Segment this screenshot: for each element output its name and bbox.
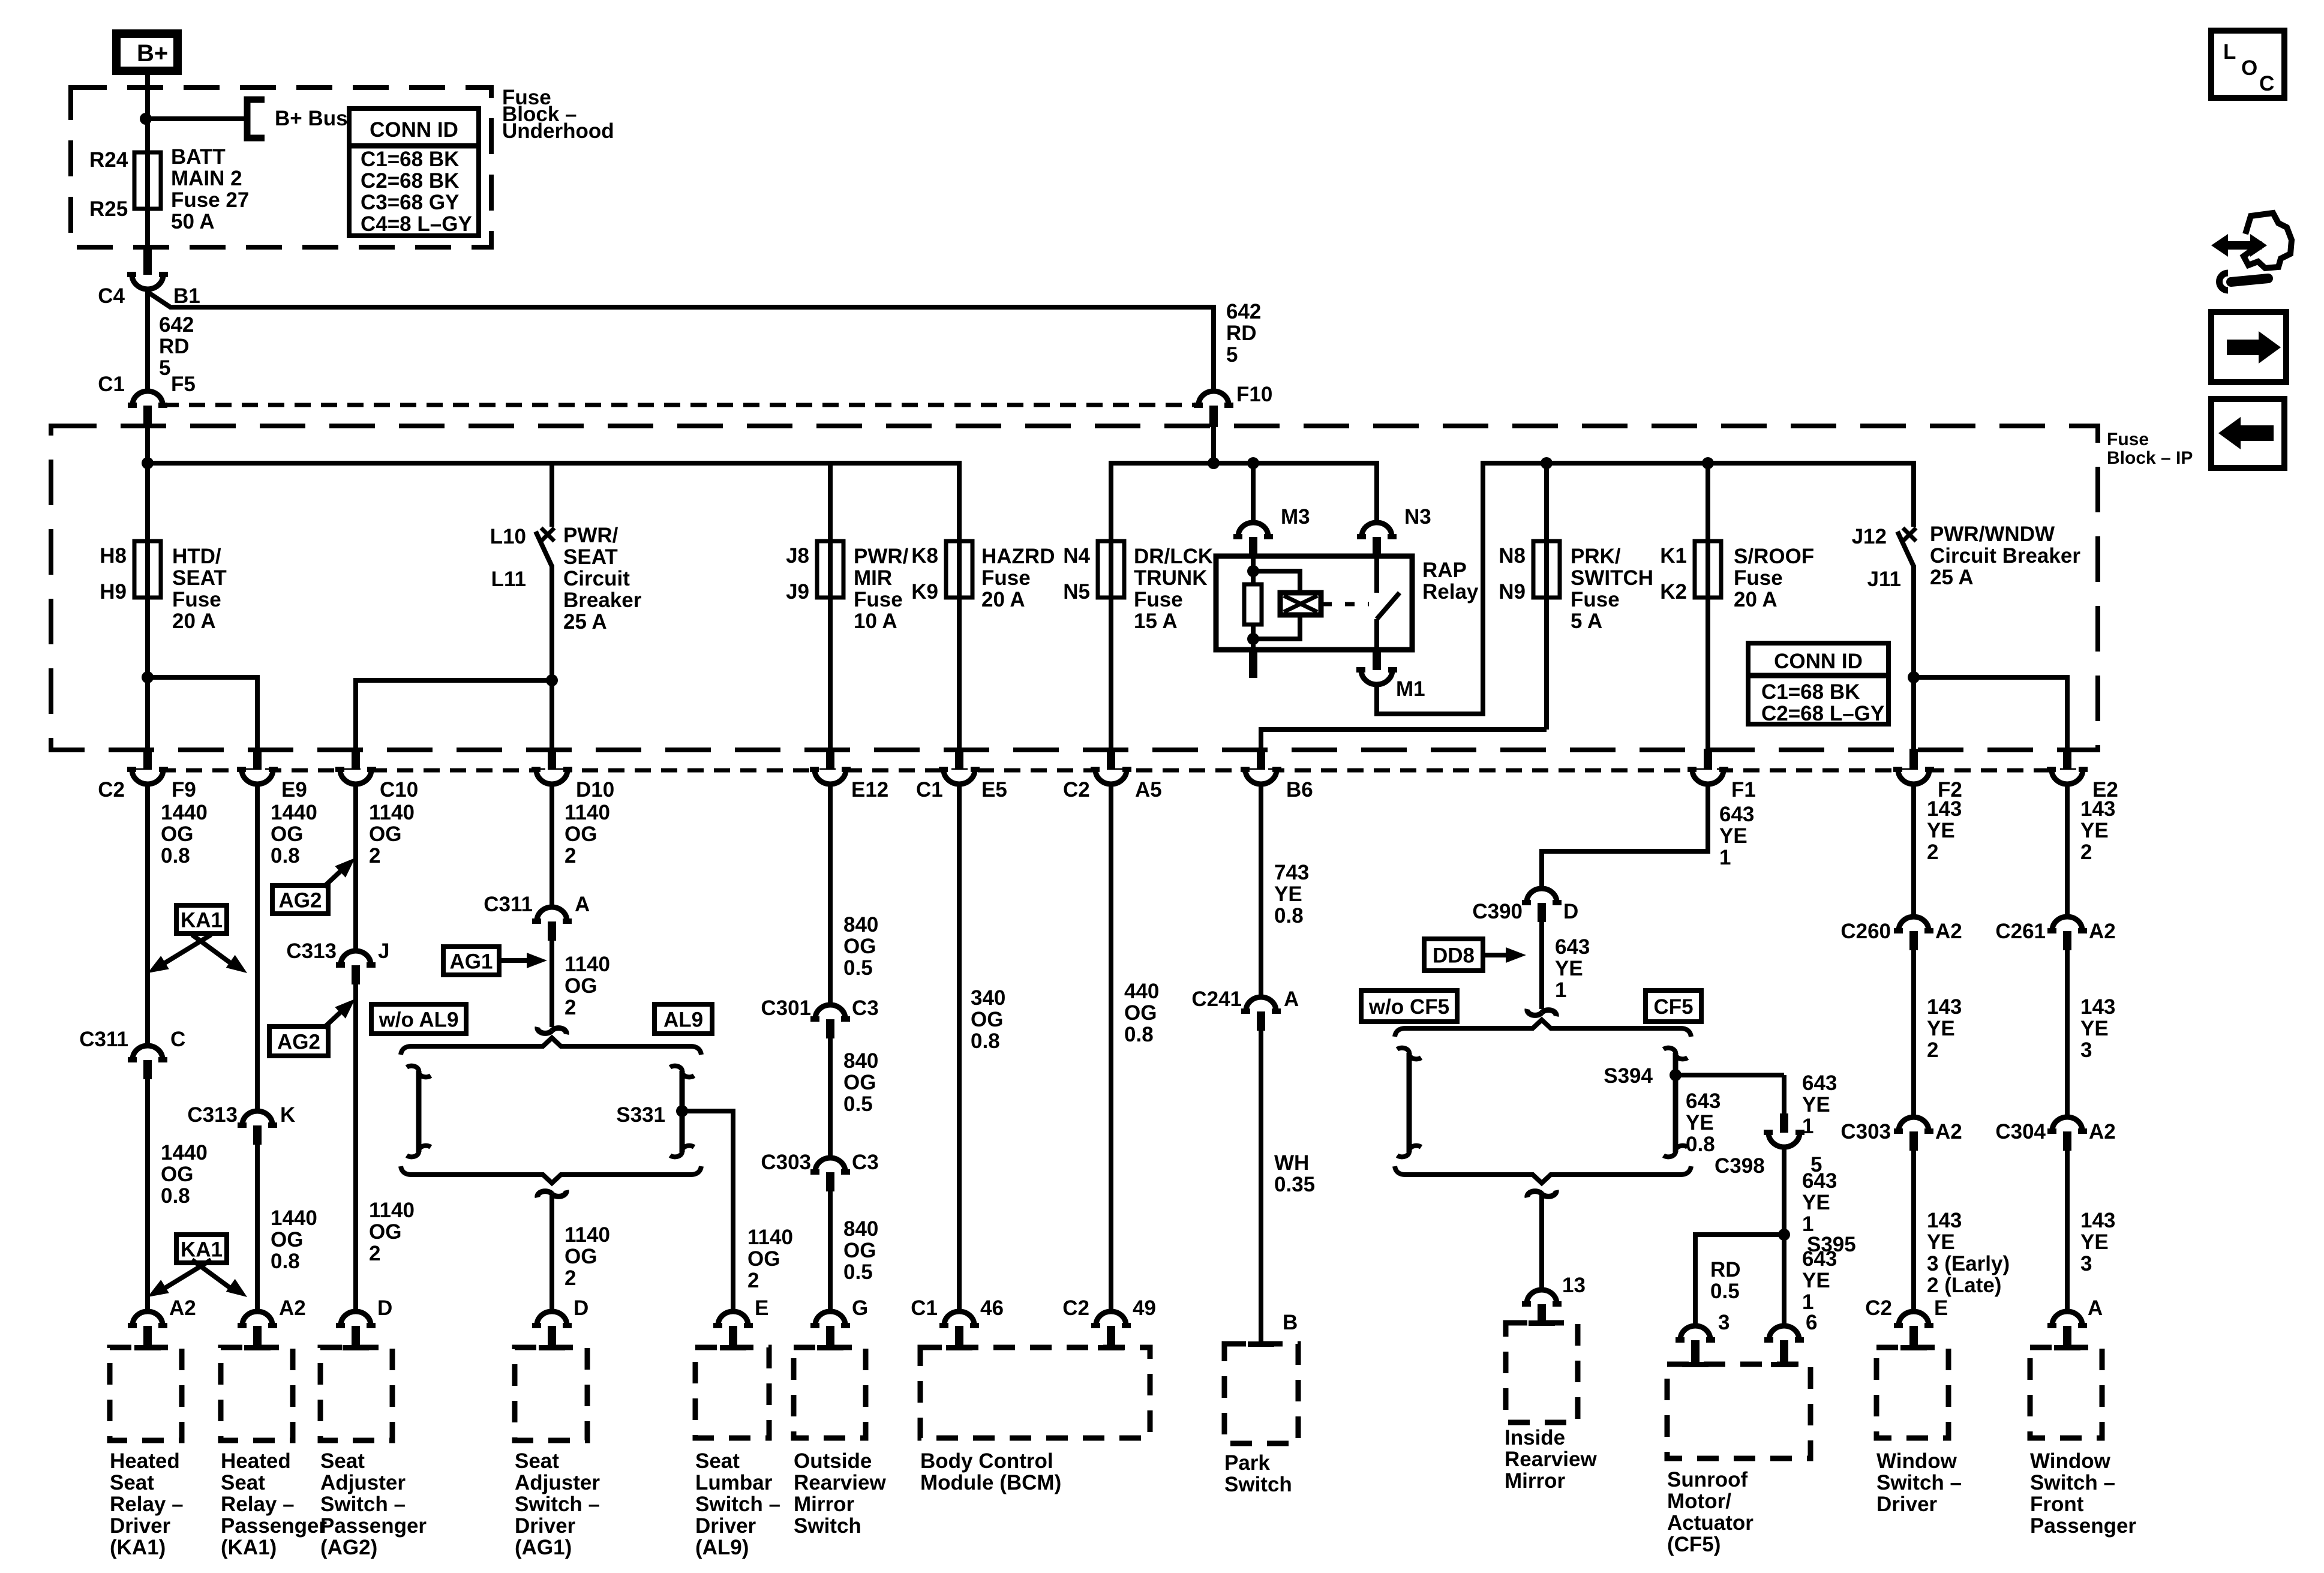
- svg-text:Underhood: Underhood: [502, 119, 614, 143]
- svg-text:0.8: 0.8: [161, 844, 190, 867]
- svg-text:C303: C303: [1840, 1120, 1891, 1143]
- svg-text:Sunroof: Sunroof: [1667, 1468, 1747, 1491]
- svg-text:YE: YE: [1274, 882, 1302, 906]
- svg-text:OG: OG: [271, 822, 303, 846]
- svg-text:Driver: Driver: [110, 1514, 171, 1538]
- svg-text:2: 2: [565, 996, 576, 1019]
- svg-text:15 A: 15 A: [1134, 610, 1178, 633]
- svg-text:CONN ID: CONN ID: [370, 118, 458, 142]
- svg-text:C311: C311: [79, 1028, 128, 1051]
- svg-text:0.8: 0.8: [1124, 1023, 1154, 1046]
- svg-text:RD: RD: [1710, 1258, 1741, 1281]
- svg-text:AG1: AG1: [450, 950, 493, 974]
- svg-text:20 A: 20 A: [981, 588, 1025, 611]
- svg-text:2: 2: [2080, 840, 2092, 864]
- svg-text:E: E: [1934, 1296, 1948, 1320]
- svg-text:SEAT: SEAT: [563, 545, 618, 569]
- svg-text:50 A: 50 A: [171, 210, 215, 233]
- svg-text:Passenger: Passenger: [2030, 1514, 2136, 1538]
- svg-text:6: 6: [1806, 1311, 1817, 1334]
- svg-text:SEAT: SEAT: [172, 566, 227, 590]
- svg-text:O: O: [2241, 56, 2257, 80]
- svg-text:Heated: Heated: [110, 1449, 180, 1473]
- svg-text:Breaker: Breaker: [563, 589, 642, 612]
- svg-text:C241: C241: [1191, 987, 1242, 1011]
- svg-text:1140: 1140: [565, 953, 610, 976]
- svg-text:N4: N4: [1063, 544, 1090, 568]
- svg-text:YE: YE: [1802, 1269, 1830, 1292]
- svg-text:BATT: BATT: [171, 145, 226, 169]
- svg-text:13: 13: [1562, 1274, 1586, 1297]
- svg-text:5: 5: [1226, 343, 1238, 367]
- svg-text:N8: N8: [1499, 544, 1526, 568]
- svg-text:D: D: [574, 1296, 588, 1320]
- svg-text:Driver: Driver: [695, 1514, 756, 1538]
- svg-text:D: D: [377, 1296, 392, 1320]
- svg-text:C1: C1: [916, 778, 943, 801]
- svg-text:143: 143: [1927, 1209, 1962, 1232]
- svg-text:(CF5): (CF5): [1667, 1533, 1721, 1556]
- svg-text:25 A: 25 A: [1930, 566, 1974, 589]
- svg-text:0.8: 0.8: [971, 1029, 1000, 1053]
- svg-text:Outside: Outside: [794, 1449, 872, 1473]
- svg-text:643: 643: [1802, 1071, 1837, 1095]
- svg-text:C311: C311: [484, 893, 533, 916]
- svg-text:OG: OG: [971, 1008, 1003, 1031]
- svg-text:Circuit: Circuit: [563, 567, 630, 590]
- svg-text:R25: R25: [89, 197, 128, 221]
- svg-text:C2: C2: [1865, 1296, 1892, 1320]
- svg-text:E: E: [755, 1296, 768, 1320]
- svg-text:AG2: AG2: [277, 1031, 320, 1054]
- svg-text:Seat: Seat: [695, 1449, 740, 1473]
- svg-text:F9: F9: [172, 778, 196, 801]
- svg-text:643: 643: [1719, 803, 1754, 826]
- svg-text:25 A: 25 A: [563, 610, 607, 634]
- svg-text:Relay –: Relay –: [110, 1493, 184, 1516]
- svg-text:SWITCH: SWITCH: [1571, 566, 1653, 590]
- svg-text:643: 643: [1555, 935, 1590, 959]
- svg-text:DR/LCK: DR/LCK: [1134, 545, 1213, 568]
- svg-text:Seat: Seat: [110, 1471, 154, 1494]
- svg-text:0.8: 0.8: [1274, 904, 1304, 927]
- svg-text:H8: H8: [100, 544, 127, 568]
- svg-text:Mirror: Mirror: [794, 1493, 855, 1516]
- svg-text:F1: F1: [1731, 778, 1756, 801]
- svg-text:C2: C2: [1063, 778, 1090, 801]
- svg-text:C261: C261: [1995, 920, 2046, 943]
- svg-text:2: 2: [1927, 840, 1938, 864]
- svg-text:YE: YE: [2080, 1230, 2109, 1254]
- svg-text:OG: OG: [161, 822, 193, 846]
- svg-text:E9: E9: [281, 778, 307, 801]
- svg-text:10 A: 10 A: [854, 610, 897, 633]
- svg-text:Switch –: Switch –: [320, 1493, 406, 1516]
- svg-text:Window: Window: [1876, 1449, 1957, 1473]
- svg-text:OG: OG: [565, 822, 597, 846]
- svg-text:Fuse: Fuse: [981, 566, 1031, 590]
- svg-text:C390: C390: [1472, 900, 1523, 923]
- svg-text:Rearview: Rearview: [1505, 1448, 1597, 1471]
- svg-text:5 A: 5 A: [1571, 610, 1602, 633]
- svg-text:0.35: 0.35: [1274, 1173, 1315, 1196]
- svg-text:440: 440: [1124, 980, 1159, 1003]
- svg-text:D10: D10: [576, 778, 614, 801]
- svg-text:743: 743: [1274, 861, 1309, 884]
- svg-text:3: 3: [2080, 1252, 2092, 1275]
- svg-text:Switch: Switch: [794, 1514, 861, 1538]
- svg-text:C4=8 L–GY: C4=8 L–GY: [361, 212, 472, 236]
- svg-text:OG: OG: [565, 974, 597, 998]
- svg-text:B6: B6: [1286, 778, 1313, 801]
- svg-text:YE: YE: [1555, 957, 1583, 980]
- svg-text:PWR/: PWR/: [563, 524, 618, 547]
- svg-text:143: 143: [1927, 995, 1962, 1019]
- svg-text:49: 49: [1133, 1296, 1156, 1320]
- svg-text:Seat: Seat: [320, 1449, 365, 1473]
- svg-text:0.8: 0.8: [271, 844, 300, 867]
- svg-text:1140: 1140: [565, 801, 610, 824]
- svg-text:E12: E12: [851, 778, 888, 801]
- svg-text:A: A: [1284, 987, 1299, 1011]
- svg-text:Park: Park: [1224, 1451, 1270, 1475]
- svg-text:A2: A2: [169, 1296, 196, 1320]
- svg-text:L11: L11: [491, 568, 526, 591]
- svg-text:OG: OG: [271, 1228, 303, 1251]
- svg-text:OG: OG: [369, 1220, 401, 1244]
- svg-text:F10: F10: [1236, 383, 1272, 406]
- svg-text:Switch –: Switch –: [515, 1493, 600, 1516]
- svg-text:YE: YE: [1927, 1230, 1955, 1254]
- svg-text:Seat: Seat: [221, 1471, 265, 1494]
- svg-text:H9: H9: [100, 580, 127, 604]
- svg-text:J8: J8: [786, 544, 809, 568]
- svg-text:Switch: Switch: [1224, 1473, 1292, 1496]
- svg-text:N3: N3: [1404, 505, 1431, 529]
- svg-text:A: A: [575, 893, 590, 916]
- svg-text:Passenger: Passenger: [221, 1514, 327, 1538]
- svg-text:Block – IP: Block – IP: [2107, 448, 2193, 468]
- svg-text:RD: RD: [1226, 322, 1257, 345]
- svg-text:L10: L10: [490, 525, 526, 548]
- svg-text:Body Control: Body Control: [920, 1449, 1053, 1473]
- svg-text:K8: K8: [911, 544, 938, 568]
- svg-text:C3=68 GY: C3=68 GY: [361, 191, 459, 214]
- svg-text:HTD/: HTD/: [172, 545, 221, 568]
- svg-text:Switch –: Switch –: [695, 1493, 780, 1516]
- svg-text:Inside: Inside: [1505, 1426, 1565, 1449]
- svg-text:K2: K2: [1660, 580, 1687, 604]
- svg-text:B+: B+: [137, 40, 168, 67]
- svg-text:1440: 1440: [161, 1141, 208, 1164]
- svg-text:Fuse: Fuse: [1734, 566, 1783, 590]
- svg-text:Adjuster: Adjuster: [515, 1471, 600, 1494]
- svg-text:1140: 1140: [369, 801, 415, 824]
- svg-text:C3: C3: [852, 1151, 879, 1174]
- svg-text:2: 2: [369, 844, 380, 867]
- svg-text:YE: YE: [1686, 1111, 1714, 1134]
- svg-text:C3: C3: [852, 996, 879, 1020]
- svg-text:C1=68 BK: C1=68 BK: [1761, 680, 1860, 704]
- svg-text:w/o AL9: w/o AL9: [379, 1008, 459, 1032]
- svg-text:w/o CF5: w/o CF5: [1368, 995, 1449, 1019]
- svg-text:0.8: 0.8: [161, 1184, 190, 1208]
- svg-text:AG2: AG2: [279, 889, 322, 912]
- svg-text:C1: C1: [911, 1296, 938, 1320]
- svg-text:N9: N9: [1499, 580, 1526, 604]
- svg-text:OG: OG: [747, 1247, 780, 1271]
- svg-text:2: 2: [565, 844, 576, 867]
- svg-text:YE: YE: [2080, 1017, 2109, 1040]
- svg-text:840: 840: [843, 1217, 878, 1241]
- svg-text:R24: R24: [89, 148, 128, 172]
- svg-text:MIR: MIR: [854, 566, 892, 590]
- svg-text:OG: OG: [843, 1071, 876, 1094]
- svg-text:143: 143: [2080, 1209, 2115, 1232]
- svg-text:YE: YE: [1719, 824, 1747, 848]
- svg-text:C313: C313: [286, 939, 337, 963]
- svg-text:Switch –: Switch –: [2030, 1471, 2115, 1494]
- svg-text:A: A: [2088, 1296, 2103, 1320]
- svg-text:A2: A2: [1935, 1120, 1962, 1143]
- svg-text:YE: YE: [2080, 819, 2109, 842]
- svg-text:Front: Front: [2030, 1493, 2084, 1516]
- svg-text:0.5: 0.5: [843, 1092, 873, 1116]
- svg-text:J: J: [378, 939, 389, 963]
- svg-text:0.8: 0.8: [271, 1250, 300, 1273]
- svg-text:B+ Bus: B+ Bus: [275, 107, 348, 130]
- svg-text:C: C: [170, 1028, 185, 1051]
- svg-text:RD: RD: [159, 335, 190, 358]
- svg-text:A2: A2: [1935, 920, 1962, 943]
- svg-text:M1: M1: [1396, 677, 1425, 701]
- svg-text:Switch –: Switch –: [1876, 1471, 1962, 1494]
- svg-text:C303: C303: [761, 1151, 811, 1174]
- svg-text:PWR/: PWR/: [854, 545, 909, 568]
- svg-text:Rearview: Rearview: [794, 1471, 886, 1494]
- svg-text:KA1: KA1: [181, 909, 223, 932]
- svg-text:Actuator: Actuator: [1667, 1511, 1753, 1535]
- svg-text:46: 46: [980, 1296, 1004, 1320]
- svg-text:C2=68 L–GY: C2=68 L–GY: [1761, 702, 1884, 725]
- svg-text:0.8: 0.8: [1686, 1133, 1715, 1156]
- svg-text:Driver: Driver: [515, 1514, 576, 1538]
- svg-text:K: K: [280, 1103, 295, 1127]
- svg-text:S331: S331: [616, 1103, 665, 1127]
- svg-text:OG: OG: [565, 1245, 597, 1268]
- svg-text:2: 2: [1927, 1038, 1938, 1062]
- svg-text:(AG2): (AG2): [320, 1536, 377, 1559]
- svg-text:Fuse: Fuse: [1134, 588, 1183, 611]
- svg-text:Circuit Breaker: Circuit Breaker: [1930, 544, 2080, 568]
- svg-text:C2=68 BK: C2=68 BK: [361, 169, 459, 193]
- svg-text:PRK/: PRK/: [1571, 545, 1621, 568]
- svg-text:Window: Window: [2030, 1449, 2111, 1473]
- svg-text:2: 2: [747, 1269, 759, 1292]
- svg-text:C2: C2: [98, 778, 125, 801]
- svg-text:Lumbar: Lumbar: [695, 1471, 773, 1494]
- svg-text:A2: A2: [2089, 1120, 2116, 1143]
- svg-text:C398: C398: [1715, 1154, 1765, 1178]
- svg-text:B1: B1: [173, 284, 200, 308]
- svg-text:(KA1): (KA1): [110, 1536, 166, 1559]
- svg-text:PWR/WNDW: PWR/WNDW: [1930, 523, 2055, 546]
- svg-text:0.5: 0.5: [1710, 1280, 1740, 1303]
- svg-text:Fuse: Fuse: [2107, 430, 2149, 449]
- svg-text:Fuse: Fuse: [1571, 588, 1620, 611]
- svg-text:3 (Early): 3 (Early): [1927, 1252, 2010, 1275]
- svg-text:HAZRD: HAZRD: [981, 545, 1055, 568]
- svg-text:A2: A2: [279, 1296, 306, 1320]
- svg-text:OG: OG: [161, 1163, 193, 1186]
- svg-text:Fuse: Fuse: [172, 588, 221, 611]
- svg-text:0.5: 0.5: [843, 1260, 873, 1284]
- svg-text:E5: E5: [981, 778, 1007, 801]
- svg-text:A2: A2: [2089, 920, 2116, 943]
- svg-text:S394: S394: [1604, 1064, 1653, 1088]
- svg-text:Heated: Heated: [221, 1449, 291, 1473]
- svg-text:C10: C10: [380, 778, 418, 801]
- svg-text:S/ROOF: S/ROOF: [1734, 545, 1814, 568]
- svg-text:2 (Late): 2 (Late): [1927, 1274, 2001, 1297]
- svg-text:YE: YE: [1802, 1093, 1830, 1116]
- svg-text:20 A: 20 A: [1734, 588, 1777, 611]
- svg-text:Fuse 27: Fuse 27: [171, 188, 249, 212]
- svg-text:Motor/: Motor/: [1667, 1490, 1731, 1513]
- svg-text:C1=68 BK: C1=68 BK: [361, 148, 459, 171]
- svg-text:WH: WH: [1274, 1151, 1309, 1175]
- svg-text:3: 3: [1718, 1311, 1730, 1334]
- svg-text:340: 340: [971, 986, 1005, 1010]
- svg-text:5: 5: [159, 356, 170, 380]
- svg-text:C2: C2: [1062, 1296, 1089, 1320]
- svg-text:OG: OG: [1124, 1001, 1157, 1025]
- svg-text:OG: OG: [843, 1239, 876, 1262]
- svg-text:J12: J12: [1852, 525, 1887, 548]
- svg-text:L: L: [2223, 40, 2236, 64]
- svg-text:2: 2: [565, 1266, 576, 1290]
- svg-text:J9: J9: [786, 580, 809, 604]
- svg-text:CONN ID: CONN ID: [1774, 650, 1863, 673]
- svg-text:AL9: AL9: [663, 1008, 703, 1032]
- svg-text:A5: A5: [1135, 778, 1162, 801]
- svg-text:1440: 1440: [271, 1206, 317, 1230]
- svg-text:YE: YE: [1802, 1191, 1830, 1214]
- svg-text:G: G: [852, 1296, 868, 1320]
- svg-text:C: C: [2259, 72, 2274, 95]
- svg-text:1: 1: [1719, 846, 1731, 869]
- svg-text:B: B: [1283, 1311, 1298, 1334]
- svg-text:OG: OG: [843, 935, 876, 958]
- svg-text:2: 2: [369, 1242, 380, 1265]
- svg-text:Adjuster: Adjuster: [320, 1471, 406, 1494]
- svg-text:143: 143: [2080, 797, 2115, 821]
- svg-text:F5: F5: [171, 373, 196, 396]
- svg-text:642: 642: [159, 313, 194, 337]
- svg-text:1440: 1440: [271, 801, 317, 824]
- svg-text:1140: 1140: [565, 1223, 610, 1247]
- svg-text:D: D: [1563, 900, 1578, 923]
- svg-text:Passenger: Passenger: [320, 1514, 427, 1538]
- svg-text:C301: C301: [761, 996, 811, 1020]
- svg-text:K1: K1: [1660, 544, 1687, 568]
- svg-text:Mirror: Mirror: [1505, 1469, 1566, 1493]
- svg-text:RAP: RAP: [1422, 559, 1467, 582]
- svg-text:C304: C304: [1995, 1120, 2046, 1143]
- svg-text:YE: YE: [1927, 1017, 1955, 1040]
- svg-text:Seat: Seat: [515, 1449, 559, 1473]
- svg-text:C4: C4: [98, 284, 125, 308]
- svg-text:C1: C1: [98, 373, 125, 396]
- svg-text:N5: N5: [1063, 580, 1090, 604]
- svg-text:840: 840: [843, 913, 878, 936]
- svg-text:840: 840: [843, 1049, 878, 1073]
- svg-text:YE: YE: [1927, 819, 1955, 842]
- svg-text:(KA1): (KA1): [221, 1536, 277, 1559]
- svg-text:C313: C313: [187, 1103, 238, 1127]
- svg-text:1140: 1140: [369, 1199, 415, 1222]
- svg-text:K9: K9: [911, 580, 938, 604]
- svg-text:Relay –: Relay –: [221, 1493, 295, 1516]
- svg-text:1440: 1440: [161, 801, 208, 824]
- svg-text:DD8: DD8: [1433, 944, 1475, 968]
- svg-text:OG: OG: [369, 822, 401, 846]
- svg-text:KA1: KA1: [181, 1238, 223, 1262]
- svg-text:143: 143: [1927, 797, 1962, 821]
- svg-text:Relay: Relay: [1422, 580, 1479, 604]
- svg-text:TRUNK: TRUNK: [1134, 566, 1207, 590]
- svg-text:0.5: 0.5: [843, 956, 873, 980]
- svg-text:642: 642: [1226, 300, 1261, 323]
- svg-text:Module (BCM): Module (BCM): [920, 1471, 1061, 1494]
- svg-text:(AG1): (AG1): [515, 1536, 572, 1559]
- svg-text:3: 3: [2080, 1038, 2092, 1062]
- svg-text:Fuse: Fuse: [854, 588, 903, 611]
- svg-text:Driver: Driver: [1876, 1493, 1938, 1516]
- svg-text:1140: 1140: [747, 1226, 793, 1249]
- svg-text:643: 643: [1802, 1169, 1837, 1193]
- svg-text:143: 143: [2080, 995, 2115, 1019]
- svg-text:J11: J11: [1867, 568, 1901, 591]
- svg-text:CF5: CF5: [1653, 995, 1693, 1019]
- svg-text:C260: C260: [1840, 920, 1891, 943]
- svg-text:20 A: 20 A: [172, 610, 216, 633]
- svg-text:MAIN 2: MAIN 2: [171, 167, 242, 190]
- svg-text:643: 643: [1686, 1089, 1721, 1113]
- svg-text:643: 643: [1802, 1247, 1837, 1271]
- svg-text:(AL9): (AL9): [695, 1536, 749, 1559]
- svg-text:1: 1: [1555, 978, 1566, 1002]
- svg-text:M3: M3: [1281, 505, 1310, 529]
